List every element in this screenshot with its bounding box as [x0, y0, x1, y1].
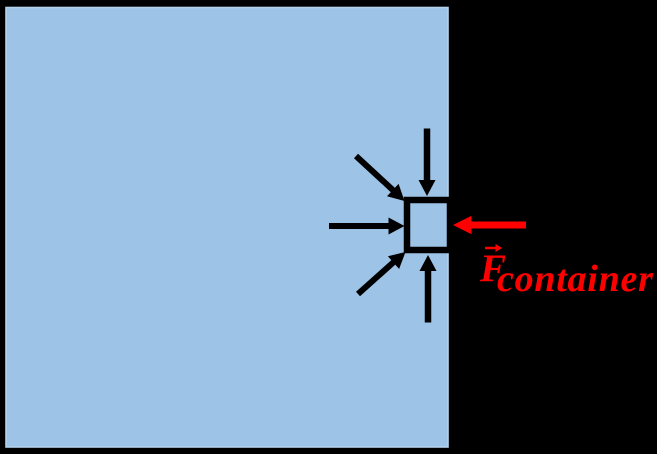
pressure arrow left (rightward)	[329, 218, 405, 235]
pressure arrow lower-left (diagonal up-right)	[358, 252, 406, 294]
force arrow from container (red, leftward)	[453, 216, 526, 234]
pressure arrow upper-left (diagonal down-right)	[356, 156, 405, 201]
pressure arrow top (downward)	[419, 129, 436, 197]
container fluid (blue rectangle)	[6, 8, 448, 448]
vector arrow over F	[485, 244, 502, 252]
label F_container	[479, 247, 654, 300]
pressure arrow bottom (upward)	[420, 255, 437, 323]
svg-text:container: container	[497, 258, 654, 300]
fluid element (small square on the wall)	[407, 200, 450, 250]
